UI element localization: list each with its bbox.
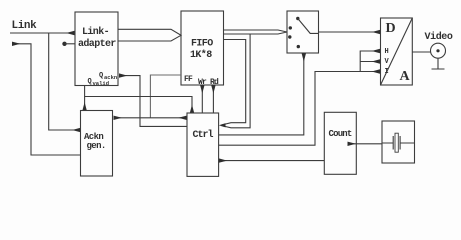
wire bus tap to Ctrl bus lower (222, 34, 251, 128)
wire Q_ackn from Ctrl to Link-adapter (120, 76, 188, 127)
wire Link input into Link-adapter (10, 32, 74, 34)
node Link input label (12, 20, 38, 32)
block crystal oscillator box (382, 121, 415, 163)
wire Count to Ctrl (219, 160, 324, 162)
block switch S1 (287, 11, 319, 53)
wire D/A to video connector (412, 51, 430, 53)
svg-text:Video: Video (425, 31, 453, 43)
wire FF to Ackn gen and Ctrl (double arrow) (114, 117, 150, 119)
block Count (324, 112, 356, 174)
block Link-adapter U1 (75, 12, 118, 86)
wire FF flag from FIFO to node (150, 75, 181, 118)
svg-text:Ctrl: Ctrl (193, 129, 214, 141)
wire Wr from Ctrl to FIFO (201, 86, 203, 113)
svg-text:Link: Link (12, 20, 38, 32)
wire H stub (360, 51, 379, 72)
wire switch select from Ctrl (219, 54, 304, 135)
svg-text:D: D (386, 21, 396, 36)
ground under video connector (432, 58, 445, 69)
svg-text:Wr Rd: Wr Rd (198, 78, 219, 87)
wire Q_valid down to Ackn gen (84, 86, 86, 111)
wire crystal to Count (348, 143, 382, 145)
svg-text:FIFO: FIFO (191, 39, 213, 50)
wire V stub (360, 61, 379, 63)
wire tap from Link line down to Ackn gen (49, 33, 80, 130)
svg-text:1K*8: 1K*8 (190, 49, 212, 61)
diagonal of D/A (381, 18, 413, 85)
svg-text:Link-: Link- (82, 26, 109, 38)
svg-text:A: A (400, 69, 411, 84)
svg-text:I: I (385, 68, 389, 76)
connector Video output (431, 43, 446, 58)
svg-text:valid: valid (93, 80, 110, 87)
svg-text:H: H (385, 48, 389, 56)
bus Link-adapter to FIFO (data) (118, 29, 181, 41)
wire sync bundle from Ctrl (219, 72, 380, 146)
wire Q_valid branch to Ctrl (85, 97, 192, 113)
block Ackn gen (81, 111, 113, 177)
svg-text:gen.: gen. (87, 141, 106, 151)
switch wiper (298, 19, 319, 34)
bus FIFO to switch (224, 30, 288, 34)
svg-text:Count: Count (329, 129, 352, 139)
svg-text:FF: FF (184, 75, 193, 84)
svg-text:adapter: adapter (78, 38, 116, 50)
svg-text:Q: Q (88, 78, 92, 86)
wire Ack return from Ackn gen out to link (left arrow) (13, 44, 81, 155)
block FIFO 1K*8 (181, 11, 224, 85)
bus wedge arrow into Ctrl (219, 123, 226, 127)
node terminal dot on Link-adapter left (62, 42, 66, 46)
block D/A converter (381, 18, 413, 85)
switch contact dots (296, 17, 299, 20)
wire stub from dot to Link-adapter (65, 43, 76, 45)
wire FIFO tap to Ctrl bus upper (222, 40, 246, 126)
wire switch output to D/A (319, 31, 380, 33)
crystal X1 symbol (382, 142, 415, 144)
wire Rd from Ctrl to FIFO (212, 86, 214, 113)
svg-text:V: V (385, 58, 390, 66)
svg-text:Q: Q (99, 72, 103, 80)
block Ctrl (187, 113, 219, 176)
